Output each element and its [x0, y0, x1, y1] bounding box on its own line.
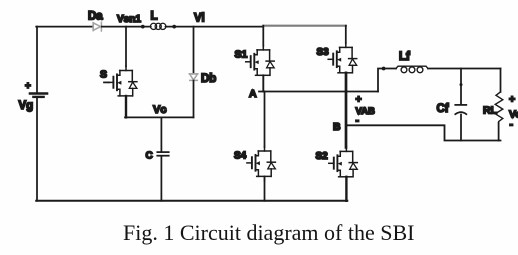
node junction dot at Lf input	[382, 67, 386, 71]
wire top rail (Da cathode to inductor L)	[102, 26, 150, 28]
wire Db cathode down to snubber bottom line	[193, 81, 195, 118]
transistor S4 (MOSFET with body diode)	[247, 147, 276, 181]
wire bottom rail	[36, 200, 347, 202]
svg-text:Vg: Vg	[19, 100, 34, 112]
wire node A down to S4 drain	[264, 92, 266, 148]
svg-text:Vc: Vc	[153, 104, 166, 116]
wire from battery - plate down to bottom rail	[36, 98, 38, 201]
wire output right side top	[500, 69, 502, 92]
transistor S (snubber MOSFET with body diode)	[108, 66, 136, 100]
svg-text:RL: RL	[483, 105, 498, 117]
inductor L	[150, 23, 166, 29]
svg-text:S4: S4	[234, 151, 247, 162]
svg-text:Cf: Cf	[437, 103, 449, 115]
wire node A rail	[259, 91, 378, 93]
wire S2 source down to bottom rail	[345, 177, 347, 201]
svg-text:Da: Da	[88, 11, 103, 23]
battery Vg	[30, 94, 47, 97]
svg-text:Vi: Vi	[194, 13, 205, 25]
svg-text:Lf: Lf	[399, 51, 410, 63]
svg-text:S: S	[100, 69, 107, 81]
wire top rail (battery to Da anode)	[36, 26, 92, 28]
transistor S3 (MOSFET with body diode)	[328, 43, 357, 77]
wire Vsn1 node down to snubber switch S drain	[125, 27, 127, 67]
wire gray top link between S1 leg and S3 leg	[263, 25, 346, 27]
inductor Lf	[396, 66, 428, 73]
wire snubber bottom line (S source to Db anode) node Vc	[125, 116, 194, 118]
wire S1 source down to node A	[262, 75, 264, 91]
svg-text:Db: Db	[201, 73, 216, 85]
svg-text:L: L	[151, 11, 158, 23]
wire Vi node down to diode Db	[193, 27, 195, 74]
svg-text:Fig. 1 Circuit diagram of the: Fig. 1 Circuit diagram of the SBI	[123, 220, 414, 245]
wire Vc node down to capacitor C	[160, 117, 162, 151]
wire Cf bottom to output bottom rail	[460, 115, 462, 141]
capacitor Cf	[455, 105, 466, 114]
wire gray link corner down to S3 drain	[345, 26, 347, 44]
svg-text:+: +	[509, 94, 515, 106]
wire from battery + plate up to top rail	[36, 27, 38, 93]
wire node A jog up to filter inductor Lf	[378, 69, 396, 92]
svg-text:+: +	[25, 81, 31, 92]
node Vi junction dot	[172, 25, 176, 29]
wire S3 source through node B to S2 drain (thick leg)	[345, 73, 348, 148]
capacitor C	[157, 152, 168, 156]
diode Db	[189, 74, 197, 81]
svg-text:A: A	[249, 88, 257, 100]
diode Da	[93, 22, 101, 31]
transistor S2 (MOSFET with body diode)	[329, 147, 358, 181]
transistor S1 (MOSFET with body diode)	[246, 45, 275, 79]
svg-text:B: B	[333, 121, 341, 133]
wire top rail (L to corner above S1)	[166, 26, 263, 28]
wire S gate lead extension	[104, 81, 109, 83]
wire output right side bottom	[498, 123, 500, 141]
svg-text:S2: S2	[316, 151, 329, 162]
svg-text:+: +	[356, 94, 362, 106]
svg-text:S1: S1	[235, 49, 248, 61]
svg-text:C: C	[146, 151, 153, 162]
wire top rail corner down to S1 drain	[262, 26, 264, 46]
wire Lf to output + rail	[428, 68, 501, 70]
wire Cf top tap	[460, 69, 462, 105]
wire capacitor C down to bottom rail	[160, 156, 162, 200]
resistor RL	[495, 92, 503, 123]
wire node B to output bottom rail	[347, 125, 501, 140]
svg-text:S3: S3	[317, 47, 330, 58]
svg-text:Vsn1: Vsn1	[117, 14, 141, 25]
node junction dot on Cf branch	[460, 83, 463, 86]
wire S4 source down to bottom rail	[264, 176, 266, 200]
node Vsn1 junction dot	[141, 25, 145, 29]
svg-text:-: -	[510, 119, 514, 131]
wire S source down to snubber bottom line	[125, 96, 127, 117]
